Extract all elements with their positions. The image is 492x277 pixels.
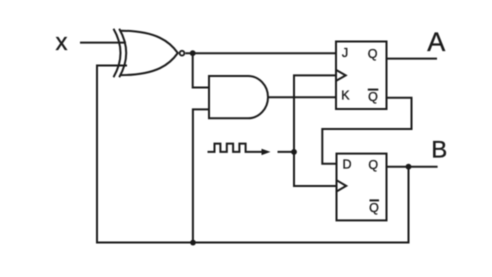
XNOR output inversion bubble	[180, 51, 185, 56]
node junction dot on bottom feedback wire	[190, 240, 196, 246]
svg-text:Q: Q	[369, 201, 379, 215]
node junction dot on B output	[406, 164, 412, 170]
label Qbar overline (D-FF)	[370, 199, 380, 201]
wire clock to D clock input	[294, 152, 337, 186]
flip-flop U3 clock triangle	[336, 70, 346, 81]
svg-text:K: K	[341, 89, 350, 103]
svg-text:J: J	[342, 46, 348, 60]
wire junction down to AND input 1	[193, 53, 209, 87]
flip-flop U4 clock triangle	[337, 180, 347, 191]
wire XNOR bubble to JK J input	[185, 52, 336, 54]
svg-text:Q: Q	[368, 90, 378, 104]
flip-flop U3 JK box	[336, 42, 387, 110]
flip-flop U4 D box	[337, 154, 387, 221]
node junction dot at XNOR output	[190, 50, 196, 56]
svg-text:B: B	[431, 136, 447, 163]
wire feedback B: D-FF Q down, bottom run, up left side, into XNOR lower input	[97, 66, 409, 243]
AND gate U2	[209, 76, 268, 118]
clock square-wave symbol	[208, 144, 262, 152]
wire input x to XNOR	[80, 42, 126, 44]
svg-text:x: x	[56, 29, 68, 56]
wire D-FF Q output to B	[387, 166, 438, 168]
XNOR gate U1 back arc	[119, 29, 126, 77]
label Qbar overline (JK)	[368, 89, 379, 91]
XNOR gate U1 body	[121, 31, 178, 75]
svg-text:Q: Q	[368, 47, 378, 61]
node clock junction dot	[291, 149, 297, 155]
wire clock to JK clock input	[294, 75, 336, 151]
svg-text:Q: Q	[368, 158, 378, 172]
wire JK Qbar to D input of U4	[322, 98, 411, 164]
wire JK Q output to A	[387, 58, 438, 60]
svg-text:D: D	[342, 158, 351, 172]
wire clock stub to clock node	[278, 151, 295, 153]
svg-text:A: A	[427, 27, 445, 57]
wire bottom feedback up to AND input 2	[193, 109, 209, 242]
XNOR gate U1 extra input arc	[114, 29, 121, 77]
clock arrowhead	[262, 149, 271, 155]
wire AND output to JK K input	[268, 96, 336, 98]
